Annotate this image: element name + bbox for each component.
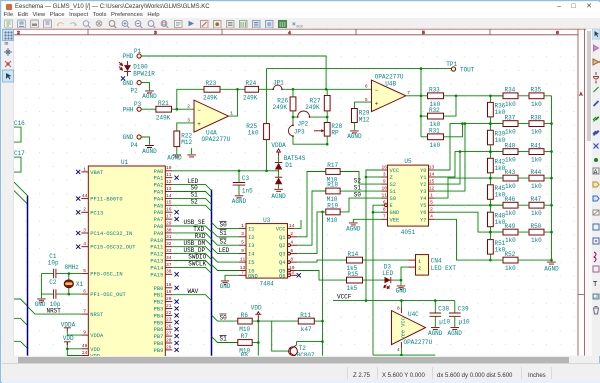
resistor R47 1k0 xyxy=(529,203,544,209)
svg-text:R38: R38 xyxy=(530,115,541,122)
svg-text:7: 7 xyxy=(407,90,410,96)
svg-text:P2: P2 xyxy=(131,88,139,95)
svg-text:M10: M10 xyxy=(327,217,338,224)
svg-text:3: 3 xyxy=(241,232,244,238)
svg-text:Q1: Q1 xyxy=(279,235,285,241)
resistor R38 1k0 xyxy=(529,121,544,127)
wire P4 to AGND xyxy=(141,137,149,145)
svg-text:S1: S1 xyxy=(389,189,395,195)
op-amp power unit U4C OPA2277U xyxy=(391,311,425,345)
svg-text:S0: S0 xyxy=(220,222,228,229)
junction ladder row 5 xyxy=(489,204,492,207)
wire edge entry H xyxy=(14,299,27,306)
schottky diode D1 BAT54S xyxy=(275,163,282,170)
wire PA14 SWCLK to bus xyxy=(172,268,211,274)
U1 pin 14 PA4 xyxy=(165,198,172,200)
svg-text:S2: S2 xyxy=(354,178,362,185)
U1 pin 28 PB8 xyxy=(165,342,172,344)
wire R33 left xyxy=(421,95,427,97)
svg-text:1k0: 1k0 xyxy=(505,157,516,164)
wire ladder row 4 links xyxy=(490,177,551,179)
svg-text:249K: 249K xyxy=(203,95,218,102)
svg-text:M12: M12 xyxy=(359,117,370,124)
wire S0 net R19 to U5 pin11 xyxy=(340,198,381,212)
resistor R44 1k0 xyxy=(529,176,544,182)
svg-text:C3: C3 xyxy=(242,175,250,182)
svg-text:5: 5 xyxy=(83,268,86,274)
wire PA10 RXD to bus xyxy=(172,240,211,246)
wire VDD pin 24 xyxy=(67,349,81,356)
U3 pin 4 Q2 xyxy=(288,244,291,247)
hex inverter U3 7404 xyxy=(246,224,287,278)
junction ladder row 6 xyxy=(489,231,492,234)
svg-text:PA3: PA3 xyxy=(154,190,164,196)
junction R11 riser node xyxy=(321,211,324,214)
power symbol AGND at P4 xyxy=(145,146,154,148)
svg-text:11: 11 xyxy=(382,193,388,199)
svg-text:in: in xyxy=(5,41,9,47)
U1 pin 20 PB2 xyxy=(165,301,172,303)
svg-text:PB9: PB9 xyxy=(154,348,164,354)
svg-text:1: 1 xyxy=(418,259,421,265)
svg-text:Vee Vcc: Vee Vcc xyxy=(400,317,406,340)
svg-text:M12: M12 xyxy=(181,139,192,146)
U1 pin 31 PA10 xyxy=(165,239,172,241)
wire R31 right riser to ladder row2 xyxy=(443,124,462,137)
U3 pin 11 I5 xyxy=(239,261,246,263)
junction VCCF nodes xyxy=(365,300,368,303)
resistor R46 1k0 xyxy=(503,203,518,209)
wire R11 right riser xyxy=(314,320,322,322)
resistor R34 1k0 xyxy=(503,93,518,99)
svg-text:5: 5 xyxy=(430,200,433,206)
U1 pin 6 PF1-OSC_OUT xyxy=(81,293,88,295)
wire P1 net to R27 column xyxy=(141,56,326,89)
svg-text:I2: I2 xyxy=(248,235,254,241)
svg-text:Q3: Q3 xyxy=(279,252,285,258)
power symbol AGND at P2 xyxy=(145,91,154,93)
svg-text:AGND: AGND xyxy=(447,330,462,337)
wire JP2 to R27 bottom node xyxy=(310,116,327,118)
svg-text:VDDA: VDDA xyxy=(271,142,286,149)
svg-text:16: 16 xyxy=(166,207,172,213)
junction E/GND node xyxy=(372,211,375,214)
junction R32 riser node xyxy=(455,95,458,98)
svg-text:I5: I5 xyxy=(248,260,254,266)
connector P1 xyxy=(137,54,141,58)
wire JP1 to U4B pin 6 xyxy=(283,89,372,91)
U5 pin 8 GND xyxy=(381,212,387,214)
svg-text:OPA2277U: OPA2277U xyxy=(202,137,231,144)
svg-text:3: 3 xyxy=(383,172,386,178)
wire ladder row 6 links xyxy=(490,231,551,233)
svg-text:Y6: Y6 xyxy=(420,211,426,217)
svg-text:A: A xyxy=(594,170,598,176)
U5 pin 6 E xyxy=(381,205,384,207)
wire R27 top xyxy=(326,90,328,96)
wire R32 left xyxy=(421,115,427,117)
U5 pin 4 Y7 xyxy=(428,219,434,221)
ladder vertical resistor R36 1k0 xyxy=(487,103,493,117)
U5 pin 13 Y0 xyxy=(428,169,434,171)
U1 pin 32 PA11 xyxy=(165,246,172,248)
wire ladder row 2 links xyxy=(490,123,551,125)
svg-text:17: 17 xyxy=(166,214,172,220)
wire feedback left riser to R25 xyxy=(266,69,268,124)
U5 pin 3 Z xyxy=(381,176,387,178)
svg-text:+: + xyxy=(197,121,201,128)
svg-text:2: 2 xyxy=(83,207,86,213)
svg-text:12: 12 xyxy=(166,179,172,185)
wire D3 node to CN4 pin2 xyxy=(401,267,408,280)
junction crystal bottom xyxy=(68,293,71,296)
wire U3 Q5 to R15 xyxy=(297,271,346,281)
svg-text:R11: R11 xyxy=(300,312,311,319)
svg-text:1k0: 1k0 xyxy=(531,183,542,190)
svg-text:PHH: PHH xyxy=(123,107,134,114)
resistor R32 1k0 xyxy=(427,114,443,120)
svg-text:4: 4 xyxy=(430,214,433,220)
wire R21 to U4A pin 2 xyxy=(172,109,194,111)
junction VDD node at R7 xyxy=(257,342,260,345)
U1 pin 22 PB4 xyxy=(165,315,172,317)
svg-text:PHD: PHD xyxy=(123,54,134,61)
wire U5 Y0 to ladder row2 xyxy=(434,124,502,170)
wire U3 GND pin to ground xyxy=(225,276,239,281)
svg-text:VEE: VEE xyxy=(389,218,399,224)
ladder vertical resistor R39 1k0 xyxy=(487,131,493,145)
svg-text:R44: R44 xyxy=(530,169,541,176)
svg-text:249K: 249K xyxy=(273,104,288,111)
junction T2 collector node xyxy=(321,341,324,344)
resistor R24 249K xyxy=(245,87,258,93)
svg-text:1k0: 1k0 xyxy=(505,211,516,218)
wire JP3 bottom to R28 bottom xyxy=(293,137,327,145)
svg-text:15: 15 xyxy=(429,179,435,185)
connector P3 xyxy=(137,107,141,111)
wire U5 Y4 to ladder row4 xyxy=(434,178,502,198)
svg-text:AGND: AGND xyxy=(347,134,362,141)
U3 pin 12 Q6 xyxy=(288,274,291,277)
wire D3 node to GND xyxy=(400,280,402,285)
resistor R6 M10 xyxy=(238,319,252,325)
svg-text:PB8: PB8 xyxy=(154,341,164,347)
U1 pin 10 PA0 xyxy=(165,170,172,172)
svg-text:JP1: JP1 xyxy=(273,80,284,87)
svg-text:PA15: PA15 xyxy=(150,273,163,279)
wire R7 to VDD riser xyxy=(252,342,258,344)
wire U5 Y1 to ladder row3 xyxy=(434,152,502,177)
svg-text:Y7: Y7 xyxy=(420,218,426,224)
wire bus exits to U3 inputs xyxy=(212,223,239,229)
svg-text:PC14-OSC32_IN: PC14-OSC32_IN xyxy=(90,231,132,237)
transistor T2 BC807 xyxy=(289,347,298,356)
wire PA13 SWDIO to bus xyxy=(172,261,211,267)
svg-text:S1: S1 xyxy=(220,230,228,237)
U1 pin 11 PA1 xyxy=(165,177,172,179)
U1 pin 2 PC13 xyxy=(81,212,88,214)
svg-text:LED: LED xyxy=(219,247,230,254)
svg-text:PA12: PA12 xyxy=(150,252,163,258)
ladder vertical resistor R45 1k0 xyxy=(487,185,493,199)
svg-text:AGND: AGND xyxy=(142,148,157,155)
svg-text:PB5: PB5 xyxy=(154,321,164,327)
svg-text:29: 29 xyxy=(166,345,172,351)
jumper JP2 xyxy=(298,111,310,117)
U5 pin 16 VCC xyxy=(381,169,387,171)
svg-text:P1: P1 xyxy=(134,48,142,55)
svg-text:Y5: Y5 xyxy=(420,204,426,210)
svg-text:13: 13 xyxy=(166,186,172,192)
svg-text:JP3: JP3 xyxy=(294,129,305,136)
U5 pin 5 Y5 xyxy=(428,205,434,207)
U5 pin 12 Y3 xyxy=(428,190,434,192)
svg-text:5: 5 xyxy=(241,240,244,246)
no-connect flags U1 right pins xyxy=(175,176,179,180)
svg-text:8: 8 xyxy=(383,207,386,213)
wire NRST to bus xyxy=(28,307,81,314)
U1 pin 29 PA8 xyxy=(165,225,172,227)
U1 pin 37 PA14 xyxy=(165,267,172,269)
wire U4C V+ pin 8 xyxy=(400,301,402,307)
junction R32 left node xyxy=(420,115,423,118)
wire ladder row 7 links xyxy=(490,259,551,261)
junction C3 node xyxy=(238,170,241,173)
svg-text:C38: C38 xyxy=(438,306,449,313)
U1 pin 12 PA2 xyxy=(165,184,172,186)
resistor R31 1k0 xyxy=(427,134,443,140)
svg-text:7: 7 xyxy=(83,309,86,315)
svg-text:µ10: µ10 xyxy=(459,319,470,326)
wire bus exit to R7 xyxy=(212,337,238,343)
resistor R19 M10 xyxy=(326,209,340,215)
wire R28 bottom xyxy=(326,136,328,144)
wire PA11 USB_DM to bus xyxy=(172,247,211,253)
svg-text:C16: C16 xyxy=(14,120,25,127)
op-amp U4A OPA2277U xyxy=(194,100,228,132)
U3 pin 2 Q1 xyxy=(288,236,291,239)
svg-text:18: 18 xyxy=(166,283,172,289)
svg-text:S2: S2 xyxy=(389,182,395,188)
U5 pin 9 S2 xyxy=(381,183,387,185)
svg-text:1k0: 1k0 xyxy=(505,265,516,272)
U1 pin 5 PF0-OSC_IN xyxy=(81,273,88,275)
svg-text:10: 10 xyxy=(382,186,388,192)
svg-text:S0: S0 xyxy=(389,196,395,202)
wire D3 to GND node xyxy=(391,279,401,281)
svg-text:PF1-OSC_OUT: PF1-OSC_OUT xyxy=(90,292,126,298)
bus vertical data bus xyxy=(211,190,213,356)
no-connect on U3 Q6 xyxy=(297,274,301,278)
svg-text:LED EXT: LED EXT xyxy=(431,265,457,272)
svg-text:14: 14 xyxy=(166,193,172,199)
svg-text:2: 2 xyxy=(17,30,20,36)
junction Z node xyxy=(365,176,368,179)
svg-text:VDDA: VDDA xyxy=(61,322,76,329)
svg-text:R49: R49 xyxy=(504,223,515,230)
wire U5 Z pin xyxy=(366,176,381,178)
junction crystal top xyxy=(68,273,71,276)
svg-text:GND: GND xyxy=(389,211,399,217)
svg-text:R31: R31 xyxy=(429,128,440,135)
wire into left bus 1 xyxy=(14,182,27,195)
resistor R50 1k0 xyxy=(529,230,544,236)
svg-text:PB2: PB2 xyxy=(154,300,164,306)
resistor R29 M12 xyxy=(351,109,357,123)
wire R45 stubs xyxy=(489,178,491,205)
U1 pin 29 PB9 xyxy=(165,349,172,351)
wire U5 Y3 riser xyxy=(434,124,464,191)
svg-text:S2: S2 xyxy=(191,199,199,206)
svg-text:9: 9 xyxy=(241,248,244,254)
wire U3 Q4 to R14 xyxy=(297,260,346,262)
svg-text:14: 14 xyxy=(289,223,295,229)
svg-text:48: 48 xyxy=(82,344,88,350)
wire PF1-OSC_OUT net xyxy=(41,293,81,295)
svg-text:U4B: U4B xyxy=(385,81,396,88)
wire TOUT riser xyxy=(420,69,422,137)
svg-text:GND: GND xyxy=(396,288,407,295)
wire U5 E to GND tie xyxy=(373,206,384,213)
wire S2 net R17 to U5 pin9 xyxy=(340,172,381,185)
svg-text:+: + xyxy=(375,101,379,108)
svg-text:OPA2277U: OPA2277U xyxy=(403,340,432,347)
svg-text:−: − xyxy=(197,107,201,114)
resistor R33 1k0 xyxy=(427,93,443,99)
resistor R26 249K xyxy=(290,97,296,111)
U5 pin 2 Y6 xyxy=(428,212,434,214)
svg-text:PF11-B00T0: PF11-B00T0 xyxy=(90,197,122,203)
svg-text:PB3: PB3 xyxy=(154,307,164,313)
svg-text:Q4: Q4 xyxy=(279,260,285,266)
junction ladder row 3 xyxy=(489,151,492,154)
svg-text:7: 7 xyxy=(241,270,244,276)
wire R22 to AGND xyxy=(176,147,178,155)
svg-text:VCC: VCC xyxy=(276,227,286,233)
wire R28 top xyxy=(326,117,328,122)
svg-text:30: 30 xyxy=(166,228,172,234)
wire PA8 USB_SE to bus xyxy=(172,226,211,232)
LED D3 xyxy=(384,277,390,283)
svg-text:21: 21 xyxy=(166,303,172,309)
svg-text:Q6: Q6 xyxy=(279,274,285,280)
U1 pin 15 PA5 xyxy=(165,205,172,207)
resistor R35 1k0 xyxy=(529,93,544,99)
power symbol AGND second bar xyxy=(191,149,193,155)
wire R26 top xyxy=(292,90,294,98)
wire U3 Q1 to R17 xyxy=(297,172,326,237)
svg-text:Q2: Q2 xyxy=(279,244,285,250)
junction bottom rail xyxy=(400,354,403,357)
svg-text:R50: R50 xyxy=(530,223,541,230)
svg-text:R41: R41 xyxy=(530,143,541,150)
junction U4B output node xyxy=(420,95,423,98)
svg-text:GND: GND xyxy=(35,301,46,308)
svg-text:34: 34 xyxy=(166,255,172,261)
microcontroller U1 xyxy=(88,166,165,357)
junction ladder right bottom xyxy=(550,259,553,262)
resistor R40 1k0 xyxy=(503,149,518,155)
svg-text:4: 4 xyxy=(288,30,291,36)
svg-text:R6: R6 xyxy=(241,312,249,319)
svg-text:PA13: PA13 xyxy=(150,259,163,265)
junction ladder row 7 xyxy=(489,259,492,262)
svg-text:GND: GND xyxy=(123,80,134,87)
wire ladder row 3 links xyxy=(490,151,551,153)
resistor R14 1k5 xyxy=(346,258,362,264)
svg-text:20: 20 xyxy=(166,296,172,302)
svg-text:249K: 249K xyxy=(305,104,320,111)
wire U4C V- pin 4 xyxy=(400,342,402,348)
photodiode D100 xyxy=(119,61,131,76)
svg-text:19: 19 xyxy=(166,289,172,295)
svg-text:5: 5 xyxy=(422,30,425,36)
power symbol AGND at C3 xyxy=(235,196,244,198)
wire R36 stubs xyxy=(489,96,491,124)
U5 pin 10 S1 xyxy=(381,190,387,192)
resistor R17 M10 xyxy=(326,169,340,175)
svg-text:2: 2 xyxy=(418,266,421,272)
svg-text:R37: R37 xyxy=(504,115,515,122)
svg-text:10p: 10p xyxy=(48,260,59,267)
svg-text:1k0: 1k0 xyxy=(505,237,516,244)
wire R29 to AGND xyxy=(353,123,355,131)
power symbol GND at U3 xyxy=(221,281,229,285)
wire R33 right to ladder row1 xyxy=(443,95,502,97)
U1 pin 23 PB5 xyxy=(165,322,172,324)
U3 pin 9 I4 xyxy=(239,253,246,255)
svg-text:S0: S0 xyxy=(220,315,228,322)
wire bottom ground rail xyxy=(373,354,435,356)
wire R32 right riser xyxy=(443,96,455,116)
wire R42 stubs xyxy=(489,152,491,178)
power symbol AGND at C38 xyxy=(431,328,440,330)
U1 pin 4 PC15-OSC32_OUT xyxy=(81,246,88,248)
U5 pin 7 VEE xyxy=(381,219,387,221)
svg-text:Y1: Y1 xyxy=(420,175,426,181)
svg-text:12: 12 xyxy=(429,186,435,192)
wire U5 VCC to VCCF rail xyxy=(366,170,381,301)
resistor R27 249K xyxy=(324,96,330,111)
U1 pin 13 PA3 xyxy=(165,191,172,193)
U5 pin 11 S0 xyxy=(381,197,387,199)
svg-text:PA6: PA6 xyxy=(154,211,164,217)
junction R11 node xyxy=(321,320,324,323)
wire PA12 USB_DP to bus xyxy=(172,254,211,260)
svg-text:1: 1 xyxy=(83,167,86,173)
svg-text:11: 11 xyxy=(166,172,172,178)
svg-text:1k0: 1k0 xyxy=(248,130,259,137)
U3 pin 6 Q3 xyxy=(288,253,291,256)
svg-text:1k0: 1k0 xyxy=(531,237,542,244)
wire U4A pin3 to R22 xyxy=(177,123,194,131)
wire PF0-OSC_IN net xyxy=(41,273,81,275)
potentiometer R28 RP xyxy=(324,123,330,137)
resistor R43 1k0 xyxy=(503,176,518,182)
wire PA4 S1 to bus xyxy=(172,199,211,205)
capacitor C1 10p xyxy=(54,269,56,278)
svg-text:14: 14 xyxy=(429,172,435,178)
svg-text:3: 3 xyxy=(83,228,86,234)
svg-text:6: 6 xyxy=(83,289,86,295)
svg-text:X1: X1 xyxy=(76,282,84,289)
U1 pin 48 VDD xyxy=(81,348,88,350)
resistor R22 M12 xyxy=(174,131,180,147)
svg-text:−: − xyxy=(375,87,379,94)
svg-text:PA5: PA5 xyxy=(154,204,164,210)
svg-text:NRST: NRST xyxy=(47,308,62,315)
svg-text:S0: S0 xyxy=(354,192,362,199)
